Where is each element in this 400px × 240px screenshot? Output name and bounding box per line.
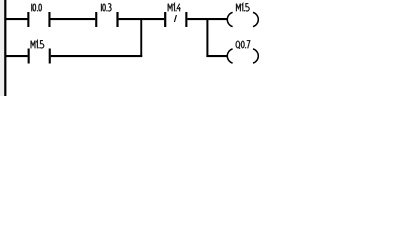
- junction vertical: branch down to Q0.7 coil: [206, 18, 208, 57]
- contact I0.0: [27, 12, 50, 27]
- contact M1.5: [28, 49, 51, 64]
- label I0.0: [32, 4, 42, 12]
- wire M1.4 to coil M1.5: [187, 18, 227, 20]
- label I0.3: [101, 4, 111, 12]
- contact M1.4 (NC): [164, 12, 187, 27]
- NC slash: [174, 15, 176, 22]
- label M1.5 (coil): [236, 4, 249, 12]
- junction vertical: M1.5 branch joins main rung: [140, 18, 142, 57]
- power rail: [4, 0, 6, 96]
- wire rail to M1.5 contact: [6, 55, 28, 57]
- label M1.4: [168, 4, 181, 12]
- left margin strip: [0, 0, 4, 96]
- wire rail to I0.0: [6, 18, 28, 20]
- label Q0.7: [236, 41, 250, 49]
- label M1.5 (contact): [31, 41, 44, 49]
- wire I0.0 to I0.3: [50, 18, 95, 20]
- wire I0.3 to M1.4: [119, 18, 165, 20]
- coil Q0.7: [227, 49, 258, 63]
- wire M1.5 contact to junction: [51, 55, 142, 57]
- coil M1.5: [227, 12, 258, 26]
- contact I0.3: [95, 12, 118, 27]
- wire junction to coil Q0.7: [206, 55, 227, 57]
